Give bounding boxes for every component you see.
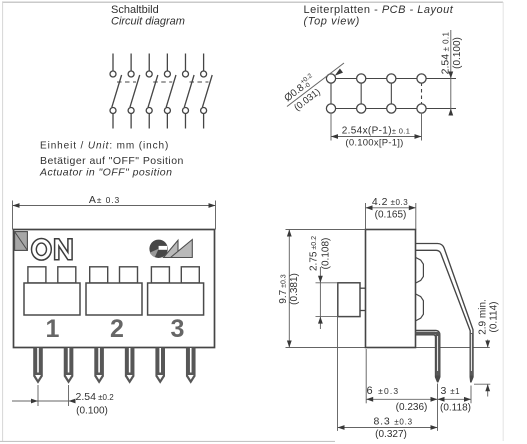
svg-text:2.9 min.: 2.9 min. [477, 299, 488, 335]
svg-text:1: 1 [46, 315, 60, 343]
svg-text:Einheit / Unit: mm (inch): Einheit / Unit: mm (inch) [40, 141, 169, 152]
svg-text:A± 0.3: A± 0.3 [89, 194, 120, 206]
svg-text:3 ±1: 3 ±1 [441, 385, 461, 397]
svg-text:(0.381): (0.381) [289, 273, 300, 305]
svg-text:Betätiger auf "OFF" Position: Betätiger auf "OFF" Position [40, 155, 184, 167]
svg-text:Leiterplatten - PCB - Layout: Leiterplatten - PCB - Layout [304, 4, 454, 16]
svg-text:2.54 ± 0.1: 2.54 ± 0.1 [439, 31, 451, 74]
svg-text:(0.100): (0.100) [452, 37, 463, 69]
svg-text:Circuit diagram: Circuit diagram [111, 16, 185, 28]
svg-text:(Top view): (Top view) [304, 16, 360, 28]
svg-text:(0.108): (0.108) [321, 238, 332, 270]
svg-text:6 ±0.3: 6 ±0.3 [367, 385, 400, 397]
svg-text:(0.114): (0.114) [489, 302, 500, 333]
svg-text:(0.165): (0.165) [375, 210, 407, 221]
svg-text:Actuator in "OFF" position: Actuator in "OFF" position [39, 167, 172, 179]
svg-text:(0.100x[P-1]): (0.100x[P-1]) [345, 138, 403, 149]
svg-text:4.2 ±0.3: 4.2 ±0.3 [372, 196, 408, 208]
svg-text:Schaltbild: Schaltbild [111, 4, 159, 16]
svg-text:(0.100): (0.100) [76, 406, 108, 417]
svg-text:2.54x(P-1)± 0.1: 2.54x(P-1)± 0.1 [342, 126, 411, 137]
svg-text:(0.327): (0.327) [375, 429, 407, 440]
svg-text:8.3 ±0.3: 8.3 ±0.3 [374, 415, 413, 427]
svg-text:2: 2 [110, 315, 124, 343]
svg-text:3: 3 [171, 315, 185, 343]
svg-text:(0.118): (0.118) [440, 402, 471, 413]
svg-text:2.54 ±0.2: 2.54 ±0.2 [76, 391, 115, 403]
svg-text:(0.236): (0.236) [396, 402, 428, 413]
